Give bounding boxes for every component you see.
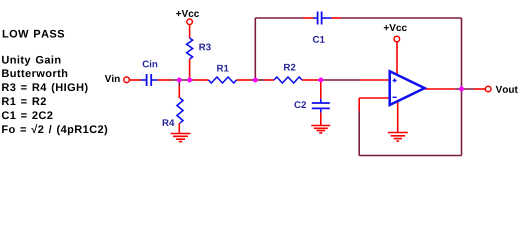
capacitor C1	[313, 12, 332, 43]
resistor R2	[274, 64, 302, 83]
wire op-amp Vcc pin	[396, 42, 398, 76]
power +Vcc for op-amp	[384, 24, 407, 42]
resistor R1	[209, 65, 237, 83]
wire R3 pins	[189, 25, 191, 80]
ground for C2	[311, 126, 330, 133]
port Vin	[105, 75, 130, 83]
junction node A1 (R4)	[177, 78, 182, 83]
wire op-amp minus input feedback loop	[359, 89, 461, 156]
resistor R3	[187, 38, 211, 59]
wire R4 pins	[178, 80, 180, 134]
resistor R4	[163, 98, 183, 126]
note text lines	[2, 56, 107, 136]
wire feedback loop left riser to C1	[255, 18, 313, 80]
ground for op-amp	[388, 133, 408, 142]
port Vout	[485, 86, 517, 93]
wire R1 to node B	[237, 79, 256, 81]
junction node B (R1/R2/C1)	[253, 78, 258, 83]
wire op-amp output to Vout	[425, 88, 486, 90]
junction node D (output)	[459, 87, 464, 92]
wire C2 bottom pin	[320, 113, 322, 126]
junction node A2 (R3)	[187, 78, 192, 83]
wire Vin to Cin	[130, 79, 142, 81]
op-amp U1	[390, 71, 425, 105]
wire Cin to node A	[158, 79, 209, 81]
capacitor C2	[294, 99, 329, 113]
junction node C (R2/C2)	[318, 78, 323, 83]
wire node C to op-amp plus input	[321, 79, 389, 81]
wire op-amp ground pin	[397, 101, 399, 133]
ground for R4	[171, 134, 191, 142]
wire C2 top pin	[320, 80, 322, 99]
wire node B to R2	[255, 79, 274, 81]
title text LOW PASS	[3, 30, 64, 38]
power +Vcc for R3	[176, 10, 199, 25]
capacitor Cin	[141, 60, 158, 86]
wire R2 to node C	[302, 79, 321, 81]
wire C1 to output riser	[332, 18, 462, 89]
